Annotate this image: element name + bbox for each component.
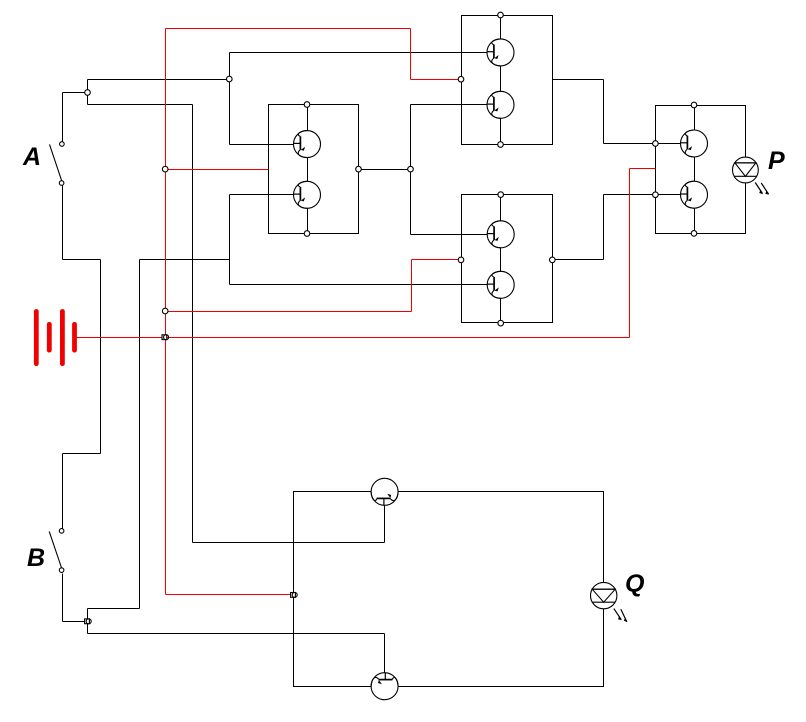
- wire red supply bus vertical: [165, 29, 167, 595]
- wire J2 to Q3 base: [230, 52, 488, 54]
- wire A-bottom horizontal: [63, 259, 101, 261]
- transistor Q10: [371, 673, 398, 700]
- node J3 junction: [85, 619, 92, 624]
- svg-text:Q: Q: [625, 570, 645, 598]
- wire B bus horizontal: [140, 259, 230, 261]
- node box1 bottom terminal: [304, 231, 310, 237]
- wire red top horizontal: [166, 28, 411, 30]
- switch B: [49, 529, 64, 573]
- wire to switch B horizontal: [63, 453, 101, 455]
- wire J4 to Q5 base: [411, 234, 488, 236]
- box module 5 (LED Q loop): [294, 492, 604, 687]
- box3 internal column: [500, 195, 502, 324]
- wire red into box1: [166, 169, 269, 171]
- wire J3 up-branch horizontal: [88, 608, 140, 610]
- svg-text:B: B: [27, 544, 45, 572]
- node box4 input terminal 1: [653, 141, 659, 147]
- wire J3 to Q10 base: [88, 633, 385, 635]
- transistor Q1: [294, 131, 321, 158]
- wire Q9 base lead: [384, 506, 386, 543]
- wire to Q8 base: [604, 194, 681, 196]
- wire to Q2 base: [230, 194, 294, 196]
- wire switch B top lead: [62, 454, 64, 529]
- node Q (output label): [625, 570, 645, 598]
- svg-text:A: A: [22, 143, 41, 171]
- node box2 bottom terminal: [498, 142, 504, 148]
- node J1 junction: [85, 90, 91, 96]
- node box1 output terminal: [356, 166, 362, 172]
- transistor Q9: [371, 478, 398, 505]
- transistor Q8: [681, 181, 708, 208]
- wire red into lamp box: [166, 594, 293, 596]
- wire switch A bottom lead: [62, 186, 64, 260]
- wire box2 output vertical: [603, 80, 605, 144]
- node battery bus junction: [162, 335, 169, 340]
- wire red mid horizontal: [166, 311, 412, 313]
- wire J4 to Q4 base: [411, 104, 488, 106]
- node box2 top terminal: [498, 12, 504, 18]
- LED P: [733, 157, 770, 195]
- wire red to box2 vertical: [410, 29, 412, 80]
- wire Q10 base lead: [384, 634, 386, 673]
- node box3 bottom terminal: [498, 320, 504, 326]
- node lamp box supply terminal: [291, 592, 298, 597]
- node box3 supply terminal: [458, 257, 464, 263]
- box2 internal column: [500, 15, 502, 145]
- node box4 bottom terminal: [691, 231, 697, 237]
- wire J4 vertical branch: [410, 105, 412, 235]
- wire box3 output horizontal: [553, 259, 604, 261]
- wire box3 output vertical: [603, 195, 605, 260]
- LED Q: [591, 582, 628, 622]
- wire red into box3: [412, 259, 461, 261]
- wire J2 vertical branch: [229, 53, 231, 145]
- wire bus to Q9 base: [193, 542, 385, 544]
- node red bus junction 2: [162, 308, 168, 314]
- wire red to box3 vertical: [411, 260, 413, 312]
- wire J3 vertical branch: [87, 609, 89, 634]
- wire red to box4 vertical: [629, 169, 631, 338]
- node red bus junction 1: [162, 166, 168, 172]
- node B (input label): [27, 544, 45, 572]
- wire B bus vertical: [139, 260, 141, 609]
- wire switch A top lead: [62, 93, 64, 142]
- wire box2 output horizontal: [553, 79, 604, 81]
- battery BT1: [34, 309, 77, 366]
- transistor Q7: [681, 130, 708, 157]
- node P (output label): [768, 147, 785, 175]
- wire J1 to left bus: [88, 104, 193, 106]
- wire A-top to node J1: [63, 92, 88, 94]
- node J4 junction: [408, 166, 414, 172]
- wire left bus vertical: [192, 105, 194, 543]
- box module 2 (top pair): [462, 16, 553, 145]
- transistor Q2: [294, 181, 321, 208]
- node box3 output terminal: [550, 257, 556, 263]
- node box3 top terminal: [498, 192, 504, 198]
- box module 4 (output pair, LED P): [656, 106, 746, 234]
- box module 3 (lower pair): [462, 195, 553, 323]
- transistor Q3: [487, 39, 514, 66]
- node A (input label): [22, 143, 41, 171]
- wire to Q6 base: [230, 284, 488, 286]
- wire J2 to Q1 base: [230, 144, 294, 146]
- node box1 top terminal: [304, 102, 310, 108]
- node box4 input terminal 2: [653, 192, 659, 198]
- wire switch B bottom lead: [62, 574, 64, 622]
- wire A-B vertical: [100, 260, 102, 454]
- node box2 supply terminal: [458, 76, 464, 82]
- wire battery positive lead: [77, 337, 630, 339]
- box module 1 (A-input pair): [269, 105, 359, 234]
- box1 internal column: [307, 105, 309, 234]
- wire J1 to node J2: [88, 79, 230, 81]
- transistor Q5: [487, 221, 514, 248]
- wire B-bottom to node J3: [63, 621, 88, 623]
- node box4 top terminal: [691, 102, 697, 108]
- wire red into box2: [411, 79, 461, 81]
- box4 internal column: [694, 105, 696, 233]
- wire Q2-Q6 base link vertical: [229, 195, 231, 285]
- wire J1 vertical branch: [87, 80, 89, 105]
- transistor Q4: [487, 91, 514, 118]
- svg-text:P: P: [768, 147, 785, 175]
- switch A: [50, 142, 65, 186]
- wire box1 output to node J4: [359, 169, 411, 171]
- transistor Q6: [487, 271, 514, 298]
- node J2 junction: [227, 76, 233, 82]
- wire to Q7 base: [604, 143, 681, 145]
- wire red into box4: [630, 168, 656, 170]
